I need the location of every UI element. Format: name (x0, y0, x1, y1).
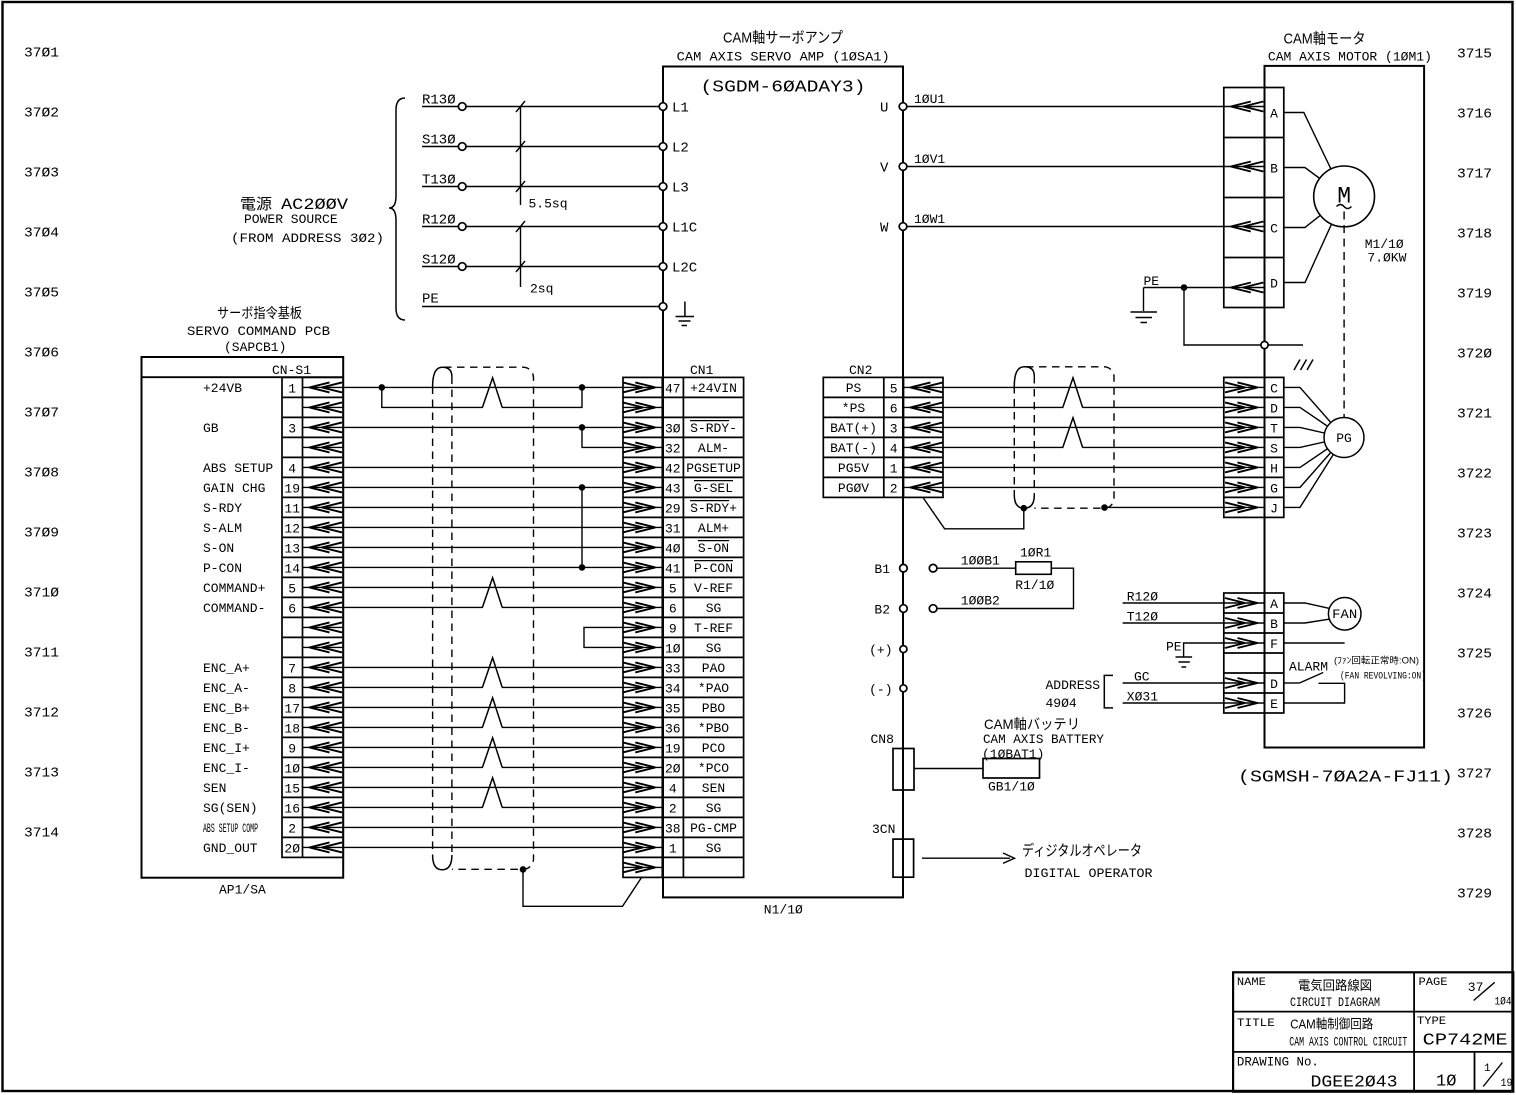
svg-text:COMMAND-: COMMAND- (203, 601, 265, 616)
wire loop T-REF to SG (pins 9-10) (584, 627, 623, 647)
motor winding leads A-D to motor circle (1284, 113, 1344, 283)
connector CN-S1 grid (282, 377, 343, 857)
svg-text:6: 6 (288, 601, 296, 616)
svg-text:2sq: 2sq (530, 282, 553, 297)
twisted-pair mark rows 15/16 (483, 685, 502, 689)
svg-text:H: H (1270, 461, 1278, 476)
wire T120 to fan B (1123, 610, 1224, 625)
svg-text:D: D (1270, 677, 1278, 692)
svg-text:L1C: L1C (672, 221, 697, 237)
svg-text:COMMAND+: COMMAND+ (203, 581, 266, 596)
CN2 row BAT(+) pin 3 (830, 421, 943, 437)
wire CN-S1 row 11 to CN1 (343, 586, 623, 588)
CN-S1 row ABS SETUP COMP pin 2 (203, 821, 343, 837)
wire CN-S1 row 20 to CN1 (343, 766, 623, 768)
svg-text:ENC_I+: ENC_I+ (203, 741, 250, 756)
junction dot GB/ALM- branch (579, 424, 586, 431)
svg-text:PE: PE (422, 292, 439, 308)
FAN connector pin B (1224, 617, 1278, 632)
svg-text:(SGDM-6ØADAY3): (SGDM-6ØADAY3) (701, 79, 866, 98)
servo amp output terminal U wire 1ØU1 (880, 92, 1224, 117)
svg-text:SEN: SEN (203, 781, 226, 796)
wire GC to fan D (1123, 670, 1224, 685)
wire CN-S1 row 3 to CN1 (343, 426, 623, 428)
svg-text:19: 19 (665, 741, 681, 756)
wire CN-S1 row 16 to CN1 (343, 686, 623, 688)
svg-text:G: G (1270, 481, 1278, 496)
wire loop +24VB return (row 2) (382, 387, 582, 407)
svg-text:BAT(-): BAT(-) (830, 441, 877, 456)
wire PE to motor frame (1184, 288, 1261, 346)
svg-text:SG: SG (706, 801, 722, 816)
svg-text:E: E (1270, 697, 1278, 712)
svg-text:37Ø4: 37Ø4 (24, 226, 59, 242)
CN1 row pin 19 PCO (623, 741, 726, 757)
CN-S1 row spare pin - (303, 642, 344, 652)
svg-text:SG: SG (706, 601, 722, 616)
svg-text:2: 2 (669, 801, 677, 816)
svg-text:3728: 3728 (1457, 827, 1492, 843)
CN1 row pin 29 S-RDY+ (623, 501, 737, 517)
svg-text:9: 9 (669, 621, 677, 636)
arrow to digital operator (922, 853, 1015, 863)
svg-text:3725: 3725 (1457, 647, 1492, 663)
svg-text:4Ø: 4Ø (665, 541, 681, 556)
fan F output stub wire (1284, 642, 1345, 644)
svg-text:PG: PG (1336, 431, 1352, 446)
CN1 row pin 5 V-REF (623, 581, 733, 597)
svg-text:(SGMSH-7ØA2A-FJ11): (SGMSH-7ØA2A-FJ11) (1238, 769, 1453, 788)
svg-text:SEN: SEN (702, 781, 725, 796)
servo amp titles CAM AXIS SERVO AMP (10SA1) (677, 30, 890, 65)
svg-text:PE: PE (1166, 640, 1182, 655)
servo command PCB titles (SAPCB1) (187, 305, 330, 355)
CN1 row pin 34 *PAO (623, 681, 729, 697)
svg-text:L2C: L2C (672, 261, 697, 277)
svg-text:1Ø: 1Ø (665, 641, 681, 656)
CN1 row pin 31 ALM+ (623, 521, 729, 537)
CN1 row pin 43 G-SEL (623, 481, 733, 497)
svg-text:電気回路線図: 電気回路線図 (1298, 978, 1372, 993)
address bracket for GC/X031 (1104, 675, 1113, 708)
svg-text:U: U (880, 101, 888, 117)
svg-text:37Ø9: 37Ø9 (24, 526, 59, 542)
motor FAN connector grid (1224, 593, 1284, 713)
svg-text:18: 18 (284, 721, 300, 736)
svg-text:AP1/SA: AP1/SA (219, 883, 266, 898)
svg-text:CN1: CN1 (690, 363, 714, 378)
CN1 row pin 9 T-REF (623, 621, 733, 637)
terminal (+) on servo amp (869, 643, 907, 658)
svg-text:PAO: PAO (702, 661, 726, 676)
CN1 row pin 1 SG (623, 841, 722, 857)
svg-text:3723: 3723 (1457, 527, 1492, 543)
shield drain junction dot (520, 866, 527, 873)
svg-text:5: 5 (288, 581, 296, 596)
wire CN2 PG5V to motor PG connector (943, 466, 1224, 468)
svg-text:41: 41 (665, 561, 681, 576)
svg-text:42: 42 (665, 461, 681, 476)
wire CN-S1 row 24 to CN1 (343, 846, 623, 848)
svg-text:1ØR1: 1ØR1 (1020, 546, 1051, 561)
svg-text:6: 6 (890, 401, 898, 416)
connector CN1 grid (623, 377, 744, 877)
svg-text:3CN: 3CN (872, 822, 895, 837)
svg-text:PE: PE (1144, 274, 1160, 289)
svg-text:3721: 3721 (1457, 407, 1492, 423)
motor power connector block A-D grid (1224, 88, 1284, 308)
svg-text:*PAO: *PAO (698, 681, 729, 696)
wire CN-S1 row 6 to CN1 (343, 486, 623, 488)
CN1 row pin 30 S-RDY- (623, 421, 737, 437)
svg-text:C: C (1270, 222, 1278, 237)
wire CN-S1 row 22 to CN1 (343, 806, 623, 808)
CN-S1 row ENC_I- pin 10 (203, 761, 343, 777)
shield drain wire to CN1 bottom (523, 869, 642, 906)
CN-S1 row spare pin - (303, 442, 344, 452)
CN-S1 row COMMAND+ pin 5 (203, 581, 343, 597)
svg-text:3711: 3711 (24, 646, 59, 662)
svg-text:L3: L3 (672, 181, 689, 197)
svg-text:GAIN CHG: GAIN CHG (203, 481, 265, 496)
CN-S1 row GAIN CHG pin 19 (203, 481, 343, 497)
CN-S1 row S-RDY pin 11 (203, 501, 343, 517)
svg-text:CAM AXIS SERVO AMP (1ØSA1): CAM AXIS SERVO AMP (1ØSA1) (677, 50, 890, 65)
servo amp output terminal V wire 1ØV1 (880, 152, 1224, 177)
right margin line-number column 3715-3729 (1457, 47, 1492, 903)
svg-text:F: F (1270, 637, 1278, 652)
CN1 row pin 10 SG (623, 641, 722, 657)
svg-text:PBO: PBO (702, 701, 726, 716)
battery 10BAT1 (GB1/10) (982, 716, 1104, 795)
motor connector pin C (1224, 222, 1278, 237)
open terminal circle B2 wire (929, 605, 937, 613)
svg-text:1ØØB2: 1ØØB2 (961, 594, 1000, 609)
junction dot P-CON (579, 564, 586, 571)
svg-text:3714: 3714 (24, 826, 59, 842)
wire shield to motor pin J (1105, 506, 1224, 508)
svg-text:POWER SOURCE: POWER SOURCE (244, 212, 338, 227)
title block frame (1233, 972, 1513, 1091)
svg-text:3729: 3729 (1457, 887, 1492, 903)
svg-text:ENC_I-: ENC_I- (203, 761, 250, 776)
svg-text:ALM-: ALM- (698, 441, 729, 456)
PG encoder leads (1284, 387, 1344, 507)
svg-text:1: 1 (890, 461, 898, 476)
svg-text:1ØØB1: 1ØØB1 (961, 554, 1000, 569)
CN-S1 row ENC_I+ pin 9 (203, 741, 343, 757)
wire CN-S1 row 15 to CN1 (343, 666, 623, 668)
wire R120 to fan A (1123, 590, 1224, 605)
svg-text:ENC_A-: ENC_A- (203, 681, 250, 696)
CN1 row pin 33 PAO (623, 661, 726, 677)
svg-text:1ØW1: 1ØW1 (914, 212, 945, 227)
svg-text:37Ø2: 37Ø2 (24, 106, 59, 122)
svg-text:DIGITAL OPERATOR: DIGITAL OPERATOR (1025, 866, 1153, 881)
svg-text:371Ø: 371Ø (24, 586, 59, 602)
motor M1 box outline (1265, 66, 1425, 748)
terminal circle on wire R120 (458, 223, 466, 231)
svg-text:(1ØBAT1): (1ØBAT1) (982, 747, 1044, 762)
PG connector pin G (1224, 481, 1278, 496)
motor frame chassis ground (1268, 345, 1313, 370)
wire tie G-SEL to P-CON (581, 487, 583, 567)
svg-text:P-CON: P-CON (203, 561, 242, 576)
svg-text:D: D (1270, 401, 1278, 416)
terminal B1 on servo amp (874, 562, 907, 577)
CN1 row pin 41 P-CON (623, 561, 733, 577)
svg-text:1ØV1: 1ØV1 (914, 152, 945, 167)
motor M circle symbol (1314, 166, 1375, 227)
svg-text:PG5V: PG5V (838, 461, 869, 476)
PG connector pin S (1224, 441, 1278, 456)
CN-S1 row GB pin 3 (203, 421, 343, 437)
svg-text:37: 37 (1468, 980, 1484, 995)
digital operator label (1022, 842, 1153, 882)
wire CN-S1 row 19 to CN1 (343, 746, 623, 748)
svg-text:L1: L1 (672, 101, 689, 117)
svg-text:3722: 3722 (1457, 467, 1492, 483)
svg-text:2: 2 (890, 481, 898, 496)
svg-text:3726: 3726 (1457, 707, 1492, 723)
svg-text:GC: GC (1134, 670, 1150, 685)
servo amp terminal L3 (659, 181, 689, 197)
terminal circle on wire T130 (458, 183, 466, 191)
CN2 row PG5V pin 1 (838, 461, 943, 477)
wire T130 to servo amp (422, 173, 659, 189)
wire 100B1 to resistor 10R1 (937, 554, 1016, 569)
svg-text:S-ON: S-ON (203, 541, 234, 556)
wire S120 to servo amp (422, 253, 659, 269)
CN1 row pin 40 S-ON (623, 541, 729, 557)
svg-text:ABS SETUP: ABS SETUP (203, 461, 273, 476)
svg-text:GB: GB (203, 421, 219, 436)
svg-text:3: 3 (890, 421, 898, 436)
fan motor leads to FAN circle (1284, 603, 1329, 623)
CN-S1 row ENC_A- pin 8 (203, 681, 343, 697)
motor connector pin D (1224, 277, 1278, 293)
title block PAGE cell: 37/104 (1419, 977, 1512, 1009)
svg-text:7.ØKW: 7.ØKW (1367, 251, 1406, 266)
svg-text:3727: 3727 (1457, 767, 1492, 783)
svg-text:PAGE: PAGE (1419, 977, 1448, 989)
svg-text:7: 7 (288, 661, 296, 676)
svg-text:L2: L2 (672, 141, 689, 157)
CN2 row PS pin 5 (846, 381, 943, 397)
wire CN-S1 row 1 to CN1 (343, 386, 623, 388)
svg-text:5: 5 (890, 381, 898, 396)
CN1 row pin - spare (623, 862, 663, 872)
junction dot on +24VB at x582 (579, 384, 586, 391)
PG connector pin D (1224, 401, 1278, 416)
wire CN-S1 row 18 to CN1 (343, 726, 623, 728)
svg-text:FAN: FAN (1332, 607, 1357, 622)
svg-text:B1: B1 (874, 562, 890, 577)
svg-text:CN2: CN2 (849, 363, 872, 378)
CN1 row pin 32 ALM- (623, 441, 729, 457)
svg-text:1: 1 (1484, 1063, 1491, 1075)
svg-text:ALM+: ALM+ (698, 521, 729, 536)
svg-text:S-RDY+: S-RDY+ (690, 501, 737, 516)
FAN connector pin E (1224, 697, 1278, 712)
svg-text:37Ø6: 37Ø6 (24, 346, 59, 362)
svg-text:3712: 3712 (24, 706, 59, 722)
svg-text:CAM AXIS CONTROL CIRCUIT: CAM AXIS CONTROL CIRCUIT (1289, 1035, 1407, 1050)
svg-text:T: T (1270, 421, 1278, 436)
svg-text:PS: PS (846, 381, 862, 396)
connector 3CN (872, 822, 914, 877)
svg-text:PG-CMP: PG-CMP (690, 821, 737, 836)
terminal circle on wire R130 (458, 103, 466, 111)
junction dot on +24VB at x382 (379, 384, 386, 391)
svg-text:(SAPCB1): (SAPCB1) (224, 340, 286, 355)
CN-S1 row S-ALM pin 12 (203, 521, 343, 537)
shield CN2 drain wire from connector (923, 497, 1024, 528)
svg-text:17: 17 (284, 701, 300, 716)
FAN connector pin A (1224, 597, 1278, 612)
svg-text:ディジタルオペレータ: ディジタルオペレータ (1022, 842, 1142, 860)
wire-gauge tick 5.5sq for R130/S130/T130 (516, 101, 568, 212)
svg-text:PCO: PCO (702, 741, 726, 756)
svg-text:NAME: NAME (1237, 977, 1266, 989)
svg-text:ENC_B-: ENC_B- (203, 721, 250, 736)
svg-text:34: 34 (665, 681, 681, 696)
CN2 row *PS pin 6 (842, 401, 943, 417)
svg-text:*PBO: *PBO (698, 721, 729, 736)
wire CN2 PS to motor PG connector (943, 386, 1224, 388)
servo amp terminal L1 (659, 101, 689, 117)
svg-text:19: 19 (284, 481, 300, 496)
wire CN2 PG0V to motor PG connector (943, 486, 1224, 488)
svg-text:B: B (1270, 617, 1278, 632)
PG connector pin C (1224, 381, 1278, 396)
twisted-pair mark CN2 rows 3/4 (1063, 445, 1082, 449)
terminal circle on wire S130 (458, 143, 466, 151)
svg-text:4: 4 (288, 461, 296, 476)
svg-text:6: 6 (669, 601, 677, 616)
terminal circle on wire S120 (458, 263, 466, 271)
svg-text:T12Ø: T12Ø (1127, 610, 1158, 625)
junction dot shield CN2 left (1021, 505, 1028, 512)
power source label block (AC200V / POWER SOURCE / FROM ADDRESS 302) (231, 196, 384, 246)
svg-text:S: S (1270, 441, 1278, 456)
svg-text:1: 1 (288, 381, 296, 396)
svg-text:PGØV: PGØV (838, 481, 869, 496)
svg-text:372Ø: 372Ø (1457, 347, 1492, 363)
svg-text:38: 38 (665, 821, 681, 836)
svg-text:B: B (1270, 162, 1278, 177)
FAN circle symbol (1328, 598, 1361, 631)
motor titles CAM AXIS MOTOR (10M1) (1268, 31, 1432, 65)
svg-text:CAM軸制御回路: CAM軸制御回路 (1290, 1017, 1373, 1032)
FAN connector pin D (1224, 677, 1278, 692)
svg-text:15: 15 (284, 781, 300, 796)
svg-text:CAM軸モータ: CAM軸モータ (1284, 31, 1366, 48)
svg-text:14: 14 (284, 561, 300, 576)
twisted-pair mark rows 19/20 (483, 765, 502, 769)
wire CN-S1 row 7 to CN1 (343, 506, 623, 508)
svg-text:T-REF: T-REF (694, 621, 733, 636)
svg-text:1Ø: 1Ø (284, 761, 300, 776)
connector CN8 (871, 732, 915, 790)
svg-text:ENC_A+: ENC_A+ (203, 661, 250, 676)
CN1 row pin 47 +24VIN (623, 381, 737, 397)
svg-text:C: C (1270, 381, 1278, 396)
junction dot shield CN2 right (1101, 504, 1108, 511)
dashed shaft link motor to PG encoder (1343, 212, 1345, 418)
wire CN-S1 row 23 to CN1 (343, 826, 623, 828)
CN-S1 row ABS SETUP pin 4 (203, 461, 343, 477)
svg-text:5.5sq: 5.5sq (529, 197, 568, 212)
junction dot G-SEL (579, 484, 586, 491)
title block TITLE cell: CAM AXIS CONTROL CIRCUIT (1237, 1017, 1408, 1050)
svg-text:49Ø4: 49Ø4 (1046, 696, 1077, 711)
servo amp terminal L2C (659, 261, 697, 277)
svg-text:+24VIN: +24VIN (690, 381, 737, 396)
wire-gauge tick 2sq for R120/S120 (516, 221, 553, 297)
svg-text:31: 31 (665, 521, 681, 536)
svg-text:J: J (1270, 501, 1278, 516)
CN-S1 row S-ON pin 13 (203, 541, 343, 557)
cable shield CN2 dashed outline (1014, 367, 1114, 508)
CN2 row BAT(-) pin 4 (830, 441, 943, 457)
fan PE wire and ground symbol (1166, 640, 1224, 668)
svg-text:3719: 3719 (1457, 287, 1492, 303)
left margin line-number column 3701-3714 (24, 46, 59, 842)
motor connector pin B (1224, 162, 1278, 177)
svg-text:37Ø8: 37Ø8 (24, 466, 59, 482)
wire CN-S1 row 17 to CN1 (343, 706, 623, 708)
CN1 row pin 35 PBO (623, 701, 726, 717)
CN1 row pin 2 SG (623, 801, 722, 817)
svg-text:3715: 3715 (1457, 47, 1492, 63)
wire CN-S1 row 12 to CN1 (343, 606, 623, 608)
twisted-pair mark rows 11/12 (483, 605, 502, 609)
wire CN-S1 row 9 to CN1 (343, 546, 623, 548)
svg-text:G-SEL: G-SEL (694, 481, 733, 496)
CN-S1 row ENC_B+ pin 17 (203, 701, 343, 717)
svg-text:TYPE: TYPE (1417, 1016, 1446, 1028)
svg-text:5: 5 (669, 581, 677, 596)
svg-text:13: 13 (284, 541, 300, 556)
svg-text:GB1/1Ø: GB1/1Ø (988, 780, 1035, 795)
svg-text:9: 9 (288, 741, 296, 756)
svg-text:11: 11 (284, 501, 300, 516)
CN-S1 row spare pin - (303, 402, 344, 412)
svg-text:4: 4 (890, 441, 898, 456)
svg-text:37Ø1: 37Ø1 (24, 46, 59, 62)
svg-text:*PS: *PS (842, 401, 866, 416)
alarm switch contact from fan D to E (1284, 660, 1345, 704)
svg-text:CAM AXIS MOTOR (1ØM1): CAM AXIS MOTOR (1ØM1) (1268, 50, 1432, 65)
svg-text:1: 1 (669, 841, 677, 856)
svg-text:電源: 電源 (240, 196, 272, 213)
svg-text:P-CON: P-CON (694, 561, 733, 576)
wire PE to servo amp ground terminal (422, 292, 659, 308)
svg-text:1Ø4: 1Ø4 (1495, 997, 1512, 1009)
servo amp terminal L2 (659, 141, 689, 157)
svg-text:ADDRESS: ADDRESS (1046, 678, 1101, 693)
svg-text:8: 8 (288, 681, 296, 696)
svg-text:(ﾌｧﾝ回転正常時:ON): (ﾌｧﾝ回転正常時:ON) (1334, 655, 1419, 666)
CN-S1 row P-CON pin 14 (203, 561, 343, 577)
cable shield CN-S1 dashed outline (433, 367, 534, 870)
CN-S1 row ENC_B- pin 18 (203, 721, 343, 737)
svg-text:S-ON: S-ON (698, 541, 729, 556)
svg-text:A: A (1270, 107, 1278, 122)
wire R120 to servo amp (422, 213, 659, 229)
svg-text:(FAN REVOLVING:ON): (FAN REVOLVING:ON) (1340, 671, 1426, 683)
